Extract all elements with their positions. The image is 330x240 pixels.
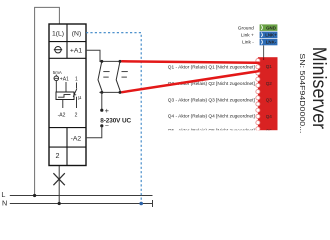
svg-text:5mA: 5mA xyxy=(53,70,62,75)
svg-text:Q1: Q1 xyxy=(266,64,273,69)
svg-text:−: − xyxy=(105,123,109,130)
svg-text:Link +: Link + xyxy=(241,33,254,39)
svg-text:Q3 - Aktor (Relais) Q3 [Nicht: Q3 - Aktor (Relais) Q3 [Nicht zugeordnet… xyxy=(168,97,255,102)
svg-text:1(L): 1(L) xyxy=(52,31,64,38)
svg-text:Q3: Q3 xyxy=(266,98,273,103)
svg-text:LNK-: LNK- xyxy=(266,40,277,45)
svg-text:-A2: -A2 xyxy=(58,113,66,119)
svg-text:N: N xyxy=(2,198,7,207)
svg-text:+: + xyxy=(105,106,109,115)
svg-text:SN: 504F94D0000...: SN: 504F94D0000... xyxy=(298,53,307,133)
svg-text:GND: GND xyxy=(266,25,276,30)
svg-text:-A2: -A2 xyxy=(71,136,82,143)
svg-text:Ground: Ground xyxy=(238,25,254,31)
svg-text:2: 2 xyxy=(75,113,78,119)
svg-text:Q4 - Aktor (Relais) Q4 [Nicht: Q4 - Aktor (Relais) Q4 [Nicht zugeordnet… xyxy=(168,114,255,119)
svg-text:+A1: +A1 xyxy=(70,47,83,54)
svg-text:Link -: Link - xyxy=(242,40,254,46)
svg-text:Q2: Q2 xyxy=(266,81,273,86)
svg-text:+A1: +A1 xyxy=(60,77,69,83)
svg-text:1: 1 xyxy=(75,77,78,83)
svg-text:Miniserver: Miniserver xyxy=(308,47,330,130)
svg-text:2: 2 xyxy=(56,151,60,160)
svg-text:(N): (N) xyxy=(72,31,81,38)
svg-text:µ: µ xyxy=(78,95,81,101)
svg-text:LNK+: LNK+ xyxy=(265,33,277,38)
svg-text:Q4: Q4 xyxy=(266,114,273,119)
svg-text:Q1 - Aktor (Relais) Q1 [Nicht: Q1 - Aktor (Relais) Q1 [Nicht zugeordnet… xyxy=(168,64,255,69)
